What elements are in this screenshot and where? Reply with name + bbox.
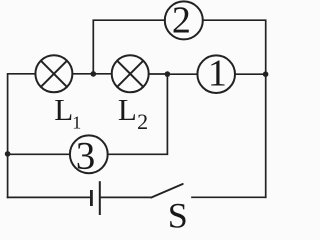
battery (cell): long thin positive plate <box>99 181 101 215</box>
wire: riser from node A up and top rail left to meter 2 <box>93 20 165 74</box>
svg-text:L: L <box>54 92 73 127</box>
lamp L2 <box>112 55 149 92</box>
wire: node B to meter 1 <box>167 73 197 75</box>
wire: meter 3 to riser up to node B <box>108 74 168 154</box>
svg-text:1: 1 <box>72 113 81 133</box>
meter 1 <box>197 53 235 95</box>
label L1 <box>54 92 81 133</box>
wire: meter 1 to node C <box>235 73 266 75</box>
svg-text:1: 1 <box>208 53 227 95</box>
battery (cell): short thick negative plate <box>90 190 93 206</box>
svg-text:2: 2 <box>137 109 148 134</box>
wire: battery to switch <box>101 196 152 198</box>
node C (junction dot) <box>263 71 269 77</box>
wire: right rail below node C <box>265 74 267 197</box>
wire: left rail (L1 left terminal, around top-left corner, down left side) <box>8 74 36 198</box>
node D (junction dot) <box>5 151 11 157</box>
wire: bottom-left segment (left rail to battery) <box>8 196 91 198</box>
svg-text:S: S <box>168 196 188 230</box>
wire: L2 to node B <box>149 73 168 75</box>
wire: L1 to node A <box>72 73 93 75</box>
meter 3 <box>70 135 108 178</box>
svg-text:L: L <box>118 92 137 127</box>
wire: node A to L2 <box>93 73 111 75</box>
lamp L1 <box>35 55 72 92</box>
node B (junction dot) <box>165 71 171 77</box>
label L2 <box>118 92 148 134</box>
node A (junction dot) <box>91 71 97 77</box>
switch S blade <box>151 184 182 198</box>
wire: top rail right from meter 2, down right side to node C <box>203 20 266 74</box>
svg-text:2: 2 <box>172 0 191 42</box>
wire: bottom-right segment (switch fixed contact to right rail) <box>192 196 266 198</box>
svg-text:3: 3 <box>76 135 96 178</box>
wire: node D to meter 3 <box>8 153 70 155</box>
meter 2 <box>165 0 203 42</box>
